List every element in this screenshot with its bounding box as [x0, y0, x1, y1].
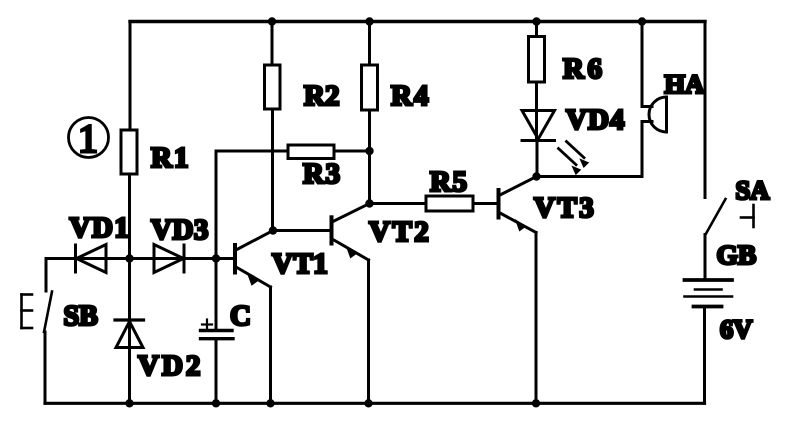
node junction R3/R4 line [365, 147, 373, 155]
node junction VT1 collector / R2 / VT2 base [269, 226, 277, 234]
wire bottom rail [45, 402, 705, 405]
svg-text:R3: R3 [303, 158, 341, 190]
node junction VD3/VT1/C/R3 [212, 254, 220, 262]
resistor R5 [426, 166, 473, 211]
transistor VT3 [499, 177, 597, 233]
wire SB bottom to bottom rail [44, 332, 47, 403]
node junction VT3 collector / VD4 / HA [532, 172, 540, 180]
wire VD1 to VD3 [106, 257, 184, 260]
wire R2 bottom to VT1 collector node [271, 109, 274, 231]
wire top rail [130, 20, 705, 23]
svg-text:VT1: VT1 [272, 248, 328, 280]
wire C bottom to rail [215, 339, 218, 404]
svg-text:R2: R2 [304, 80, 339, 112]
switch SB pushbutton [22, 292, 98, 333]
svg-text:C: C [230, 300, 251, 332]
resistor R3 [288, 145, 341, 190]
wire R6 top [535, 22, 538, 37]
svg-text:VD4: VD4 [566, 104, 625, 136]
wire VT1 collector node to VT2 base [273, 229, 331, 232]
wire VT1 emitter to bottom rail [269, 287, 272, 403]
node junction top rail R4 [365, 17, 373, 25]
svg-text:SA: SA [736, 175, 770, 205]
svg-text:GB: GB [717, 239, 757, 270]
diode VD2 [115, 320, 203, 382]
wire HA top from rail [641, 22, 644, 107]
node junction R4 / VT2 collector / R5 [365, 199, 373, 207]
svg-text:HA: HA [665, 69, 705, 99]
node junction bottom C [212, 399, 220, 407]
node 1 circled label [69, 116, 109, 161]
wire HA bottom run [537, 175, 643, 178]
node junction top rail R2 [268, 17, 276, 25]
wire R1 bottom to VD row [128, 174, 131, 259]
wire VT2 collector node to R5 [370, 202, 427, 205]
transistor VT2 [332, 204, 432, 261]
switch SA [706, 175, 770, 235]
svg-text:1: 1 [78, 116, 98, 161]
resistor R2 [265, 65, 340, 112]
wire VD4 to VT3 collector node [536, 141, 539, 177]
wire left vertical from top rail to R1 [129, 22, 132, 131]
svg-text:SB: SB [64, 301, 98, 332]
diode VD1 [70, 212, 131, 273]
wire R5 to VT3 base [473, 202, 498, 205]
svg-text:6V: 6V [720, 314, 752, 344]
wire left branch down to SB [45, 259, 48, 292]
node junction VD row / R1-VD2 line [125, 254, 133, 262]
resistor R4 [362, 65, 431, 112]
wire C top [215, 259, 218, 331]
wire R6 bottom to VD4 [535, 82, 538, 141]
node junction bottom VT2 emitter [364, 399, 372, 407]
wire VD row left segment [46, 257, 106, 260]
LED VD4 [522, 104, 625, 141]
wire R4 bottom to VT2 collector node [368, 110, 371, 204]
node junction bottom VD2 [125, 399, 133, 407]
svg-text:R6: R6 [563, 53, 605, 85]
node junction top rail R6 [532, 17, 540, 25]
svg-text:VT3: VT3 [534, 192, 596, 224]
svg-text:R4: R4 [391, 80, 430, 112]
wire VT3 emitter to bottom rail [535, 233, 538, 404]
svg-text:R1: R1 [151, 142, 190, 174]
battery GB [685, 239, 757, 344]
wire R3 to R4 line [334, 150, 370, 153]
resistor R6 [529, 37, 606, 86]
wire right side top rail corner down to SA [704, 22, 707, 198]
svg-text:VD3: VD3 [151, 214, 209, 246]
svg-text:VD1: VD1 [70, 212, 131, 244]
node junction bottom VT3 emitter [532, 399, 540, 407]
svg-text:VD2: VD2 [138, 350, 203, 382]
node junction top rail HA [638, 17, 646, 25]
wire SA to battery [704, 235, 707, 279]
sounder HA [642, 69, 704, 132]
wire R4 top [368, 22, 371, 66]
wire VD row junction down to VD2 [128, 259, 131, 348]
wire VD3 to VT1 base [184, 257, 234, 260]
svg-text:R5: R5 [430, 166, 468, 198]
LED VD4 emission arrows [559, 142, 590, 176]
wire VD2 to bottom rail [128, 348, 131, 404]
wire R2 top [271, 22, 274, 66]
capacitor C [201, 300, 251, 339]
diode VD3 [151, 214, 209, 273]
resistor R1 [121, 130, 190, 174]
wire VT2 emitter to bottom rail [367, 260, 370, 403]
node junction bottom VT1 emitter [266, 399, 274, 407]
wire battery to bottom rail [703, 307, 706, 404]
svg-text:VT2: VT2 [369, 216, 431, 248]
transistor VT1 [235, 231, 328, 288]
wire R3 corner down to VD row junction [216, 151, 288, 259]
